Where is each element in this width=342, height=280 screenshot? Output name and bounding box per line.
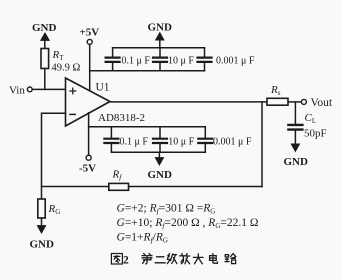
wire (RG to ground) bbox=[41, 218, 43, 226]
resistor Rf bbox=[109, 169, 129, 191]
svg-text:2: 2 bbox=[123, 255, 129, 267]
wire (op-amp negative supply pin down to -5V terminal) bbox=[88, 113, 90, 155]
svg-text:0.1 μ F: 0.1 μ F bbox=[122, 56, 151, 67]
wire (CL to ground) bbox=[294, 131, 296, 145]
capacitor C4 0.1uF (bottom bank) bbox=[104, 127, 148, 153]
wire (feedback node to Rf) bbox=[42, 186, 109, 188]
wire (feedback riser from output node) bbox=[261, 102, 263, 187]
svg-text:0.001 μ F: 0.001 μ F bbox=[213, 137, 252, 148]
caption: figure 2, second-stage amplifier circuit (hand-drawn hanzi) bbox=[111, 253, 235, 266]
svg-text:10 μ F: 10 μ F bbox=[168, 56, 194, 67]
wire (op-amp - input left and down to feedback node) bbox=[42, 113, 66, 199]
svg-text:U1: U1 bbox=[96, 82, 110, 94]
ground GND (bottom bypass bank) bbox=[148, 152, 173, 181]
wire (Vin to op-amp + input) bbox=[32, 88, 65, 90]
ground GND (bottom-left, below RG) bbox=[30, 226, 55, 251]
terminal Vin bbox=[9, 85, 32, 97]
wire (op-amp output to Rs) bbox=[110, 101, 267, 103]
svg-text:G=+10; Rf=200 Ω , RG=22.1 Ω: G=+10; Rf=200 Ω , RG=22.1 Ω bbox=[117, 217, 259, 230]
svg-text:+5V: +5V bbox=[80, 27, 100, 39]
resistor RG bbox=[38, 199, 60, 218]
svg-text:0.001 μ F: 0.001 μ F bbox=[216, 56, 255, 67]
resistor Rs bbox=[267, 84, 288, 105]
capacitor CL 50pF bbox=[288, 112, 326, 140]
capacitor C6 0.001uF (bottom bank) bbox=[198, 127, 252, 153]
svg-text:Vout: Vout bbox=[311, 97, 333, 109]
wire (RT bottom to non-inverting input node) bbox=[44, 69, 46, 90]
ground GND (below CL) bbox=[284, 144, 309, 168]
wire (top bypass rail, +5V side) bbox=[90, 70, 205, 72]
svg-text:10 μ F: 10 μ F bbox=[168, 137, 194, 148]
resistor RT 49.9 ohm bbox=[41, 49, 81, 74]
wire (bottom bypass rail, ground side) bbox=[111, 151, 205, 153]
wire (top bypass rail, ground side) bbox=[113, 47, 205, 49]
wire (output node down to CL) bbox=[294, 102, 296, 124]
svg-text:-5V: -5V bbox=[79, 163, 96, 175]
svg-text:GND: GND bbox=[30, 239, 55, 251]
capacitor C5 10uF (bottom bank) bbox=[153, 127, 195, 153]
capacitor C1 0.1uF (top bank) bbox=[106, 48, 151, 71]
svg-text:GND: GND bbox=[148, 22, 173, 34]
svg-text:50pF: 50pF bbox=[304, 128, 327, 140]
svg-text:49.9 Ω: 49.9 Ω bbox=[52, 63, 81, 74]
capacitor C2 10uF (top bank) bbox=[153, 48, 194, 71]
svg-text:Vin: Vin bbox=[9, 85, 25, 97]
wire (Rs to Vout terminal) bbox=[288, 101, 301, 103]
svg-text:G=+2; Rf=301 Ω =RG: G=+2; Rf=301 Ω =RG bbox=[117, 203, 216, 216]
svg-text:0.1 μ F: 0.1 μ F bbox=[120, 137, 149, 148]
wire (bottom bypass rail, -5V side) bbox=[89, 126, 206, 128]
capacitor C3 0.001uF (top bank) bbox=[198, 48, 255, 71]
svg-text:G=1+Rf/RG: G=1+Rf/RG bbox=[117, 232, 168, 245]
wire (Rf to output node) bbox=[129, 186, 263, 188]
ground GND (top bypass bank) bbox=[148, 22, 173, 48]
svg-text:GND: GND bbox=[284, 156, 309, 168]
op-amp U1 AD8318-2 bbox=[66, 78, 146, 126]
svg-text:GND: GND bbox=[148, 169, 173, 181]
terminal Vout bbox=[301, 97, 332, 109]
terminal +5V supply bbox=[80, 27, 100, 45]
svg-text:AD8318-2: AD8318-2 bbox=[98, 112, 145, 124]
wire (+5V terminal to op-amp positive supply pin) bbox=[89, 44, 91, 90]
terminal -5V supply bbox=[79, 155, 96, 174]
svg-text:GND: GND bbox=[32, 22, 57, 34]
ground GND (top-left, input termination) bbox=[32, 22, 57, 49]
